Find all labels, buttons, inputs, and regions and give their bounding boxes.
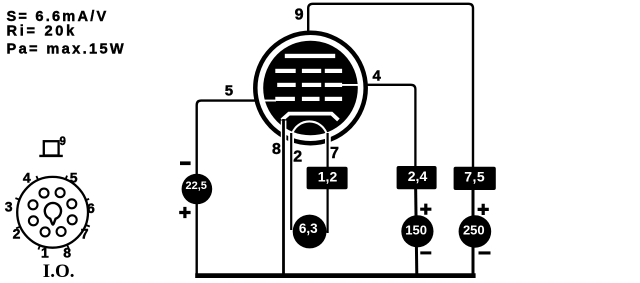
svg-text:2,4: 2,4 xyxy=(408,168,428,184)
wire: control grid pin5 left, down left column through 22,5 battery xyxy=(197,101,265,275)
screen current box 2,4 xyxy=(397,166,437,189)
socket leader ticks xyxy=(15,176,89,250)
wire: heater pin7 down through 1,2 box to 6,3 battery xyxy=(327,133,329,233)
svg-text:5: 5 xyxy=(70,170,78,186)
wire: screen grid pin4 right, down middle-right column xyxy=(356,85,415,170)
cathode xyxy=(282,114,339,120)
grid g3 (row 1) xyxy=(275,69,342,73)
svg-text:7,5: 7,5 xyxy=(464,168,485,184)
svg-text:1: 1 xyxy=(41,244,49,260)
wire: cathode pin8 down to rail xyxy=(282,119,285,275)
svg-text:2: 2 xyxy=(293,149,302,166)
wire: heater pin2 down to 6,3 battery xyxy=(290,133,292,230)
socket pin holes 1-8 xyxy=(29,188,77,236)
grid g1 control (row 3) xyxy=(263,97,343,102)
socket outline (bottom view) xyxy=(17,177,88,248)
plus sign above 250 xyxy=(478,204,489,215)
minus sign above 22,5 xyxy=(180,161,191,165)
socket center spigot key xyxy=(45,203,61,225)
svg-text:9: 9 xyxy=(60,136,66,148)
svg-text:22,5: 22,5 xyxy=(185,180,206,192)
svg-text:250: 250 xyxy=(463,222,485,237)
battery 250 V anode xyxy=(459,215,492,248)
tube U1 envelope xyxy=(255,33,365,143)
parameter text S/Ri/Pa xyxy=(7,9,127,58)
battery 22,5 V grid bias xyxy=(182,174,213,205)
svg-text:Ri= 20k: Ri= 20k xyxy=(7,24,77,40)
minus sign below 250 xyxy=(479,251,491,254)
grid g2 screen (row 2) xyxy=(277,83,358,87)
plus sign above 150 xyxy=(420,204,431,215)
svg-text:3: 3 xyxy=(5,198,13,214)
svg-text:4: 4 xyxy=(373,67,382,84)
svg-text:150: 150 xyxy=(405,222,427,237)
svg-text:5: 5 xyxy=(225,82,233,99)
svg-text:1,2: 1,2 xyxy=(318,169,338,185)
battery 6,3 V heater xyxy=(293,215,327,249)
plus sign below 22,5 xyxy=(179,207,190,218)
svg-text:I.O.: I.O. xyxy=(43,261,75,282)
svg-text:8: 8 xyxy=(272,141,281,158)
svg-text:6: 6 xyxy=(87,200,95,216)
top-cap symbol (pin 9) xyxy=(44,141,59,155)
svg-text:7: 7 xyxy=(330,145,339,162)
battery 150 V screen xyxy=(401,215,433,247)
anode current box 7,5 xyxy=(454,167,496,190)
svg-text:8: 8 xyxy=(63,244,71,260)
minus sign below 150 xyxy=(420,251,431,254)
wire: right column through 7,5 box and 250 battery to rail xyxy=(472,170,475,275)
svg-text:Pa= max.15W: Pa= max.15W xyxy=(7,42,127,58)
svg-text:6,3: 6,3 xyxy=(299,221,318,236)
socket pin number labels xyxy=(5,170,95,261)
anode plate xyxy=(285,54,335,58)
svg-text:4: 4 xyxy=(23,170,31,186)
heater filament arc xyxy=(292,121,327,134)
wire: middle-right column through 2,4 box and 150 battery to rail xyxy=(415,170,416,275)
wire: anode top-cap pin9 up, across and down right column xyxy=(308,4,473,170)
ground rail xyxy=(195,273,475,278)
svg-text:2: 2 xyxy=(13,225,21,241)
svg-text:S= 6.6mA/V: S= 6.6mA/V xyxy=(7,9,109,25)
heater current box 1,2 xyxy=(307,167,348,190)
white channels for pin wires through envelope xyxy=(281,121,331,149)
svg-text:7: 7 xyxy=(81,225,89,241)
tube electrode assembly (black disc) xyxy=(263,41,358,136)
svg-text:9: 9 xyxy=(295,7,304,24)
